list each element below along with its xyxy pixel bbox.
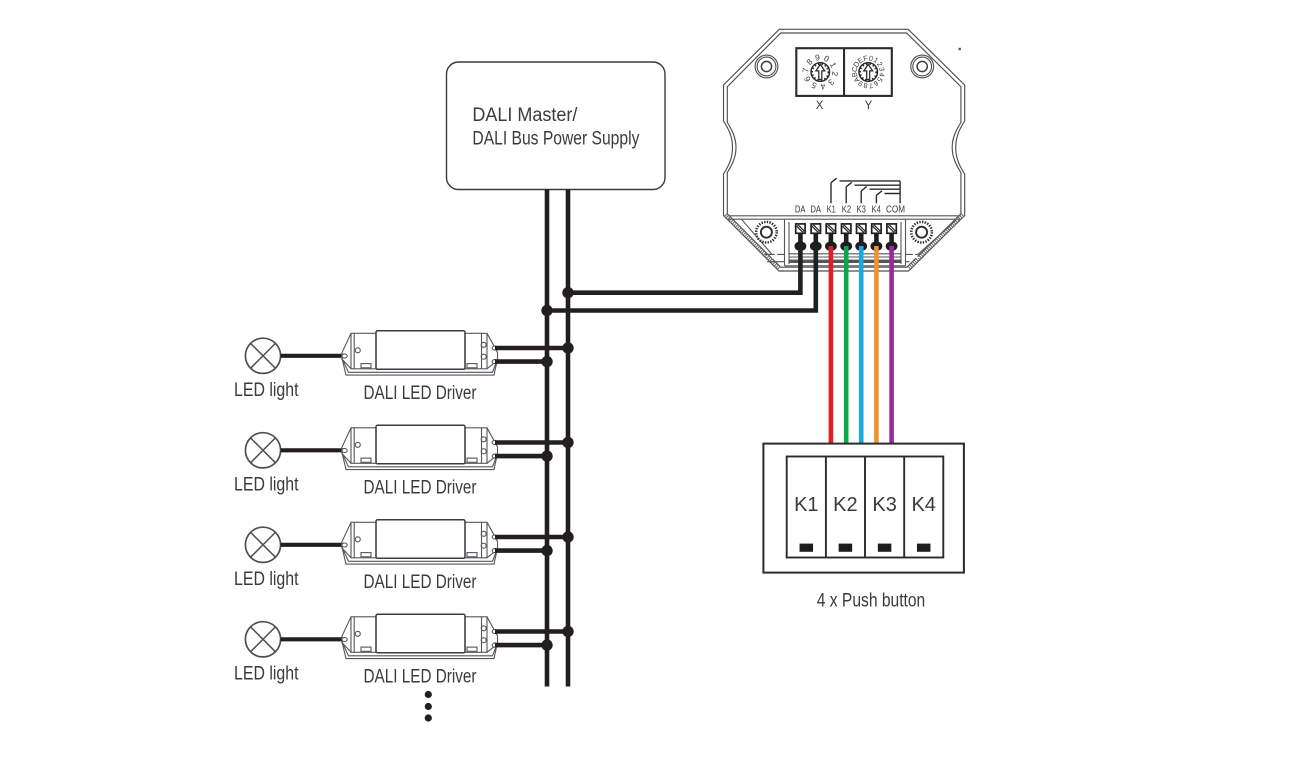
screw top-right: [911, 55, 934, 78]
push button controller device U1 : housing outline: [724, 29, 965, 271]
svg-text:DALI Bus Power Supply: DALI Bus Power Supply: [472, 129, 639, 150]
wire DALI bus right (DA): [566, 190, 571, 687]
node junction DA1 / right bus: [562, 287, 573, 298]
node junction driver 1 / left bus: [541, 356, 552, 367]
node junction driver 4 / right bus: [562, 626, 573, 637]
svg-text:DALI LED Driver: DALI LED Driver: [364, 666, 478, 687]
svg-text:DALI Master/: DALI Master/: [472, 105, 578, 126]
button pad K2: [839, 544, 853, 552]
wire orange K4 to push button: [874, 246, 879, 444]
DALI LED Driver row 3: [342, 520, 498, 564]
wire lamp 2 to driver: [281, 448, 345, 452]
LED light lamp row 3: [245, 527, 280, 562]
wire DA terminal 1 to right bus: [568, 244, 800, 293]
DALI LED Driver row 2: [342, 425, 498, 469]
screw bottom-right: [911, 222, 932, 243]
rotary switch box: [796, 48, 892, 96]
wire driver 1 DA+ to right bus: [495, 346, 568, 351]
node junction driver 3 / left bus: [541, 545, 552, 556]
svg-text:K2: K2: [833, 494, 857, 516]
svg-text:COM: COM: [886, 205, 905, 216]
push button inner frame: [787, 457, 944, 558]
terminal K3: [857, 224, 866, 233]
wire driver 1 DA- to left bus: [495, 359, 547, 364]
wire DALI bus left (DA): [545, 190, 550, 687]
wire driver 4 DA+ to right bus: [495, 629, 568, 634]
terminal K4: [872, 224, 881, 233]
wire DA terminal 2 to left bus: [547, 244, 816, 311]
svg-text:LED light: LED light: [234, 663, 299, 684]
svg-text:LED light: LED light: [234, 380, 299, 401]
stray speck: [959, 48, 961, 50]
wire driver 2 DA+ to right bus: [495, 440, 568, 445]
svg-text:DA: DA: [810, 205, 821, 216]
rotary switch Y digits: [850, 53, 887, 90]
wire red K1 to push button: [829, 246, 834, 444]
button dividers: [826, 457, 904, 558]
rotary switch X digits: [800, 52, 840, 92]
node junction driver 3 / right bus: [562, 531, 573, 542]
push button switch symbols K1-K4 to COM: [831, 178, 900, 203]
node junction driver 1 / right bus: [562, 342, 573, 353]
svg-text:DA: DA: [795, 205, 806, 216]
LED light lamp row 4: [245, 622, 280, 657]
screw top-left: [755, 55, 778, 78]
wire blue K3 to push button: [859, 246, 864, 444]
button pad K4: [917, 544, 931, 552]
svg-text:LED light: LED light: [234, 569, 299, 590]
svg-text:K4: K4: [872, 205, 882, 216]
node junction driver 2 / right bus: [562, 437, 573, 448]
terminal COM: [887, 224, 896, 233]
svg-text:X: X: [816, 100, 824, 112]
rotary switch Y dial: [859, 63, 878, 82]
terminal DA2: [811, 224, 820, 233]
button pad K1: [800, 544, 814, 552]
svg-text:K3: K3: [857, 205, 867, 216]
node junction driver 2 / left bus: [541, 450, 552, 461]
DALI LED Driver row 1: [342, 331, 498, 375]
terminal recess bottom section: [725, 215, 962, 269]
terminal DA1: [796, 224, 805, 233]
svg-text:DALI LED Driver: DALI LED Driver: [364, 477, 478, 498]
node junction DA2 / left bus: [541, 305, 552, 316]
svg-text:Y: Y: [865, 100, 873, 112]
screw bottom-left: [756, 222, 777, 243]
wire driver 3 DA- to left bus: [495, 548, 547, 553]
svg-text:K3: K3: [872, 494, 896, 516]
terminal K2: [842, 224, 851, 233]
wire green K2 to push button: [844, 246, 849, 444]
wire lamp 3 to driver: [281, 543, 345, 547]
terminal K1: [826, 224, 835, 233]
rotary switch X dial: [811, 63, 830, 82]
push button station box: [763, 444, 964, 573]
svg-text:DALI LED Driver: DALI LED Driver: [364, 572, 478, 593]
wire purple COM to push button: [889, 246, 894, 444]
svg-text:K2: K2: [842, 205, 852, 216]
svg-text:LED light: LED light: [234, 474, 299, 495]
wire lamp 4 to driver: [281, 637, 345, 641]
svg-text:K1: K1: [794, 494, 818, 516]
LED light lamp row 2: [245, 433, 280, 468]
ellipsis dots: [425, 691, 432, 722]
button pad K3: [878, 544, 892, 552]
wire driver 3 DA+ to right bus: [495, 535, 568, 540]
wire driver 2 DA- to left bus: [495, 454, 547, 459]
DALI LED Driver row 4: [342, 614, 498, 658]
DALI Master / Bus Power Supply box: [447, 62, 666, 190]
svg-text:K4: K4: [911, 494, 935, 516]
svg-text:K1: K1: [827, 205, 836, 216]
LED light lamp row 1: [245, 338, 280, 373]
svg-text:DALI LED Driver: DALI LED Driver: [364, 383, 478, 404]
wire lamp 1 to driver: [281, 354, 345, 358]
wire driver 4 DA- to left bus: [495, 643, 547, 648]
svg-text:4 x Push button: 4 x Push button: [817, 591, 926, 612]
node junction driver 4 / left bus: [541, 639, 552, 650]
